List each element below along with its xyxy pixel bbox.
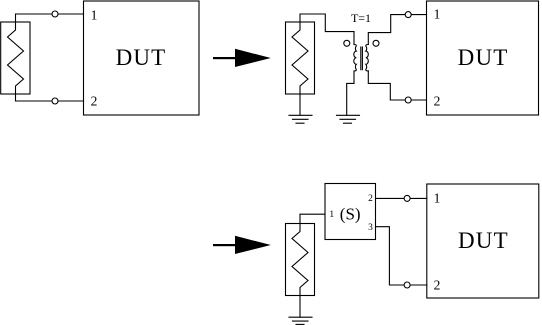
ground (below transformer primary) bbox=[337, 115, 360, 123]
svg-text:DUT: DUT bbox=[458, 228, 509, 253]
DUT U2 box (top-right) bbox=[427, 1, 539, 115]
svg-text:2: 2 bbox=[434, 93, 441, 108]
svg-text:1: 1 bbox=[91, 7, 98, 22]
transformer T1 primary winding bbox=[347, 32, 357, 116]
wire: secondary top to DUT2 pin 1 bbox=[368, 15, 426, 45]
arrow (bottom, implies transformation) bbox=[213, 236, 271, 254]
wire: R3 bottom to ground bbox=[299, 296, 301, 318]
wire: R1 top to DUT1 pin 1 bbox=[16, 13, 84, 15]
wire: R3 top to S-parameter block pin 1 bbox=[300, 214, 325, 223]
svg-text:3: 3 bbox=[368, 223, 373, 233]
wire: R2 bottom to ground bbox=[299, 94, 301, 115]
transformer core lines bbox=[360, 47, 362, 70]
wire: S pin 3 to DUT3 pin 2 bbox=[376, 227, 427, 285]
svg-text:DUT: DUT bbox=[458, 45, 509, 70]
resistor R1 (source resistor, top-left) bbox=[1, 14, 30, 101]
svg-text:2: 2 bbox=[434, 277, 441, 292]
arrow (top, implies transformation) bbox=[213, 49, 271, 67]
svg-text:(S): (S) bbox=[340, 204, 361, 223]
polarity dot secondary bbox=[373, 40, 379, 46]
svg-text:1: 1 bbox=[434, 7, 441, 22]
node terminal circle (bottom pin 1) bbox=[404, 195, 410, 201]
wire: R1 bottom to DUT1 pin 2 bbox=[16, 100, 84, 102]
polarity dot primary bbox=[344, 40, 350, 46]
resistor R3 (bottom, grounded) bbox=[286, 224, 315, 296]
node terminal circle (top-left pin 2) bbox=[52, 98, 58, 104]
svg-text:2: 2 bbox=[368, 194, 373, 204]
resistor R2 (top-middle, grounded) bbox=[286, 22, 315, 94]
wire: secondary bottom to DUT2 pin 2 bbox=[368, 71, 426, 100]
DUT U3 box (bottom-right) bbox=[427, 184, 539, 298]
node terminal circle (bottom pin 2) bbox=[404, 282, 410, 288]
node terminal circle (top-right pin 2) bbox=[405, 97, 411, 103]
node terminal circle (top-left pin 1) bbox=[52, 11, 58, 17]
S-parameter block (S) bbox=[325, 184, 376, 240]
svg-text:DUT: DUT bbox=[116, 45, 167, 70]
transformer T1 secondary winding bbox=[366, 45, 369, 71]
svg-text:2: 2 bbox=[91, 93, 98, 108]
wire: S pin 2 to DUT3 pin 1 bbox=[376, 197, 427, 199]
svg-text:1: 1 bbox=[329, 210, 334, 220]
node terminal circle (top-right pin 1) bbox=[405, 12, 411, 18]
svg-text:1: 1 bbox=[434, 191, 441, 206]
ground (below R3) bbox=[289, 317, 312, 324]
ground (below R2) bbox=[289, 115, 312, 123]
svg-text:T=1: T=1 bbox=[351, 11, 371, 25]
wire: R2 top to transformer primary bbox=[300, 14, 354, 32]
DUT U1 box (top-left) bbox=[84, 1, 200, 115]
